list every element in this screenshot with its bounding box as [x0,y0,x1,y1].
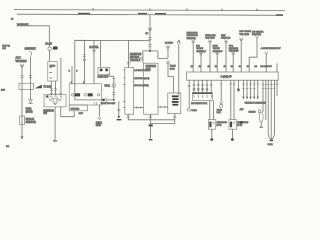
wire ECM feed from rail [128,41,130,68]
connector ticks on relay output [112,78,115,80]
connector arrow W1 [192,39,195,43]
svg-text:C416: C416 [191,110,197,112]
noise suppressor coil [259,112,263,122]
junction nub TDC/relay [113,99,115,101]
noise condenser box (box3) [168,93,181,114]
svg-text:G1O1: G1O1 [96,122,103,124]
wire ECM ground pigtail [118,101,120,116]
connector ticks on switch feeds [50,89,57,91]
svg-text:C (S/N) 4P: C (S/N) 4P [221,76,233,78]
connector arrow W2 [199,51,202,55]
connector eyelet on K1 [220,102,223,104]
svg-text:B6 WHT: B6 WHT [165,43,174,45]
wire V1 [21,67,23,136]
svg-text:RED/YEL: RED/YEL [252,34,262,36]
splice blob on TDC feed [102,99,104,101]
injector resistor dark bar [192,92,212,94]
wire IG1 feed to fuse [17,26,49,45]
wire W9 [265,54,267,72]
ground arrow V1 [21,136,24,139]
wire arrow group a2 [246,80,248,96]
pin ticks under distributor [94,102,96,105]
ground symbol V2 [29,100,33,104]
svg-text:B6: B6 [247,66,249,68]
connector ticks on drop A [83,55,86,57]
svg-text:SW: SW [43,113,48,115]
riser ticks box2 [149,116,152,118]
junction nub [149,50,151,52]
wire horizontal TDC feed [75,99,114,101]
arrow marker right of box [35,85,42,89]
connector circle left of box2 [141,57,143,59]
svg-text:IGNITION: IGNITION [146,66,157,68]
wire O2A-1 [209,100,211,119]
svg-text:GND: GND [96,125,101,127]
wire W7 [240,41,242,72]
wire W1 [192,43,194,72]
wire D2 [193,80,195,92]
svg-text:C731: C731 [104,85,110,87]
wire coil feed b [265,80,267,120]
connector circle on relay output [112,84,116,88]
svg-text:INJ RESIST BLK: INJ RESIST BLK [191,103,207,105]
wire coil stem out [260,122,262,127]
connector circle C416 [187,108,190,111]
svg-text:CYP: CYP [79,113,84,115]
wire O2A-2 [212,100,214,119]
pin dashes inside injector box [194,95,211,98]
svg-text:A5: A5 [208,65,210,68]
splice rings on D2-D5 [193,88,195,90]
distributor outer box [69,84,101,105]
wire trio 2 [270,80,272,139]
ECM box (box1) [125,68,134,115]
svg-text:5: 5 [69,70,70,72]
connector ticks lower [112,92,115,94]
svg-text:VALVE: VALVE [213,47,220,50]
svg-text:VLV GRN: VLV GRN [205,37,215,39]
label on bus 2 mid-a [138,13,147,14]
ground dot O2B [231,138,234,141]
O2 sensor B box [229,120,236,130]
svg-text:GRN/BLK: GRN/BLK [196,51,206,53]
node tick T1 on bus 1 [92,8,94,10]
ticks on arrow group [242,83,259,85]
svg-text:BLK/YEL: BLK/YEL [89,47,99,49]
connector arrow on drop B [92,50,95,53]
svg-text:MAIN RLY: MAIN RLY [98,76,109,79]
ticks on O2B [230,83,236,85]
arrowhead on pigtail [117,116,120,119]
svg-text:A3: A3 [199,65,201,68]
svg-text:YEL/GRN: YEL/GRN [239,34,249,36]
svg-text:IAT SENSR: IAT SENSR [252,31,264,34]
wire arrow group a3 [250,80,252,96]
dark dash below pigtail [117,119,122,120]
wire W6 [232,55,234,72]
connector strip box C584 [187,72,279,80]
relay contact a [100,69,103,72]
svg-text:DISTRIB: DISTRIB [71,108,80,110]
ground dash under switch wire [53,140,57,141]
svg-text:A SUSPENSION SY: A SUSPENSION SY [261,47,281,50]
connector circle on TDC feed [104,99,107,102]
wire relay up to rail [99,41,101,68]
svg-text:TACH: TACH [170,65,176,68]
connector arrow on ICM feed [148,27,151,31]
riser ticks box1 [127,116,130,118]
wire ICM feed from bus2 [149,15,151,52]
wire to box3 [168,65,173,93]
wire short K2 [237,80,239,90]
tick on right stub [276,83,278,85]
dark mark lower left [240,121,243,123]
wire D1 below strip [188,80,190,108]
svg-text:RED/BLU: RED/BLU [213,51,223,53]
switch rotor fan [49,97,62,105]
svg-text:WHT/RED: WHT/RED [16,60,27,63]
svg-text:B2 LG1 (GND): B2 LG1 (GND) [134,85,149,87]
svg-text:B8: B8 [255,66,257,68]
wire W3 [209,43,211,72]
wire long drop right of box3 [178,44,180,95]
wire K1 with connector symbol [220,80,222,101]
svg-text:TO ICM: TO ICM [43,87,51,89]
svg-text:(GND): (GND) [26,110,33,113]
connector chevron upper [166,45,169,49]
igniter box (box2) [143,63,158,114]
ticks on trio [262,83,276,85]
end dash coil [260,127,263,128]
wire tee left leg [142,51,144,63]
wire bottom rail 1 [128,114,175,120]
relay box (PGM-FI main relay) [98,67,110,74]
wire arrow group a4 [253,80,255,96]
pin dashes on box1 left [123,70,125,108]
under-dash fuse box [48,62,57,82]
capacitor box across V1/V2 [19,83,33,89]
connector ticks on V1 [20,75,23,77]
svg-text:C2: C2 [145,33,149,35]
wire W2 [200,55,202,72]
wire switch out to ground [54,107,56,140]
svg-text:G2: G2 [6,146,10,148]
dark tick on ground drop [149,124,153,126]
label on bus 2 right end [276,14,283,15]
switch pins [51,96,52,97]
arrowheads group [242,97,259,100]
ticks on D2-D6 [193,83,213,85]
O2 sensor A box [208,120,215,130]
wire chevron to tee corner [167,49,169,58]
coil terminal 2 [85,94,88,97]
node tick T5 on bus 1 [256,9,258,11]
ticks on pigtail [117,110,120,111]
end blob trio [270,140,273,142]
wire arrow group a1 [242,80,244,96]
tick D1 [188,85,191,86]
connector arrow W7 [240,37,243,41]
svg-text:B2: B2 [231,66,233,68]
connector arrow W5 [224,39,227,43]
connector arrow W6 [232,51,235,55]
connector arrow on coil ground drop [98,117,101,120]
node tick T4 on bus 1 [221,9,223,11]
svg-text:G401: G401 [268,144,274,146]
svg-text:B4: B4 [239,66,241,68]
svg-text:No.15: No.15 [45,43,52,46]
dark label block inside box3 [172,95,179,97]
connector ticks on V2 [29,75,32,77]
tick on long drop [178,92,180,94]
svg-text:A17: A17 [240,108,245,111]
connector arrow W4 [216,51,219,55]
ticks on link box1-box2 [136,106,140,108]
wire switch out to distributor [61,107,74,117]
svg-text:14: 14 [11,19,14,21]
component box on V1 (sensor) [20,116,25,125]
svg-text:C582 TDC CKP: C582 TDC CKP [101,103,116,105]
switch dark mark [46,95,49,97]
wire relay output jog [108,75,114,77]
wire drop B from rail [93,41,95,84]
wire coil terminal feed [71,66,73,84]
wire O2A ground [211,129,213,138]
wire D5 [206,80,208,92]
svg-text:6: 6 [76,70,77,72]
wire W5 [225,43,227,72]
svg-text:A9: A9 [224,65,226,68]
wire arrow group a5 [257,80,259,96]
connector arrow W9 [265,52,268,55]
connector chevron lower [166,61,169,65]
label on bus 2 left [78,13,90,14]
connector arrow V1 top [20,64,23,68]
wire V2 [30,57,32,100]
wire stub below strip right end [276,80,278,96]
wire bottom rail 2 [150,120,174,124]
coil terminal 3 [97,94,99,96]
wire trio 3 [272,80,275,139]
svg-text:BLK: BLK [217,112,222,114]
label on bus 2 mid-b [155,13,166,14]
svg-text:2: 2 [83,82,84,84]
wire bus line 1 (hot in START) [14,10,285,11]
connector arrow W8 [255,36,258,39]
svg-text:A25 IGP1 (C-2): A25 IGP1 (C-2) [134,77,149,80]
connector arrow up long drop [177,40,180,44]
wire drop A from rail [83,40,85,83]
svg-text:GRN/WHT: GRN/WHT [25,47,37,50]
riser ticks box3 [173,116,176,118]
coil terminal mark b [88,93,93,96]
svg-text:YEL/BLK: YEL/BLK [130,59,141,62]
svg-text:PRI HO2S: PRI HO2S [217,122,228,124]
relay contact b [105,69,108,72]
wire coil feed a [262,80,264,112]
ground dot O2A [210,138,213,141]
wire W8 with jog [249,38,257,72]
wire bus line 2 (hot in ON) [17,14,283,15]
svg-text:IAC: IAC [196,45,200,48]
svg-text:MAP: MAP [221,34,226,37]
svg-text:VALVE: VALVE [196,47,203,50]
wire box2 ground drop [149,114,151,139]
ground dash under box2 drop [149,139,153,140]
heater mark in O2B [230,122,232,128]
splice blob on K2 [237,89,239,92]
svg-text:ECT GAUG: ECT GAUG [239,30,251,33]
svg-text:A7: A7 [215,65,217,68]
fuse pins inside box [50,67,52,78]
connector ticks on ECM feed [127,62,131,64]
wire fusebox out a [50,81,52,95]
distributor sub box [69,105,87,111]
wire O2B-1 [230,80,232,119]
svg-text:SEC HO2S: SEC HO2S [237,122,249,124]
wire fusebox out c [60,58,62,95]
svg-text:C1 C3 C5 C7: C1 C3 C5 C7 [260,66,271,68]
svg-text:1: 1 [71,82,72,84]
wire stub above strip right end [276,63,278,72]
connector arrow W3 [208,39,211,43]
injector pin box [192,93,212,101]
wire link box2-box3 [158,106,168,108]
fuse symbol [48,47,51,50]
wire junction tee [143,50,158,52]
node tick T3 on bus 1 [186,9,188,11]
wire D6 [210,80,212,92]
wire W4 [216,55,218,72]
wire O2B-2 [233,80,235,119]
wire coil ground drop [98,105,100,117]
svg-text:SENSOR: SENSOR [221,38,231,40]
connector hook V2 top [29,52,32,57]
wire trio 1 [268,80,271,139]
coil terminal mark a [75,93,80,96]
ticks on link box2-box3 [161,106,165,108]
wire link box1-box2 [134,107,144,109]
svg-text:MTR: MTR [170,68,175,70]
svg-text:SENSOR: SENSOR [26,121,36,124]
connector arrow on drop A [83,59,86,62]
wire feed rail (top of engine-compartment group) [75,40,150,99]
wire D4 [202,80,204,92]
heater mark in O2A [209,122,211,128]
wire fuse to fusebox [49,50,51,61]
svg-text:RADIO: RADIO [249,110,256,113]
wire relay output drop [113,76,115,100]
wire D3 [197,80,199,92]
wire fusebox out b [55,81,57,95]
wire tee right leg [158,51,168,59]
svg-text:(S 1): (S 1) [217,125,222,127]
connector circle coil [258,110,261,113]
ignition switch box [44,95,66,107]
coil terminal 1 [72,94,75,97]
svg-text:(S 2): (S 2) [237,125,242,127]
svg-text:ON: ON [2,48,6,50]
svg-text:A16: A16 [1,88,6,91]
connector ticks on ICM feed [148,38,151,40]
wire O2B ground [231,129,233,138]
node tick T2 on bus 1 [149,8,151,10]
svg-text:COIL: COIL [146,69,152,71]
svg-text:A1: A1 [191,65,193,68]
